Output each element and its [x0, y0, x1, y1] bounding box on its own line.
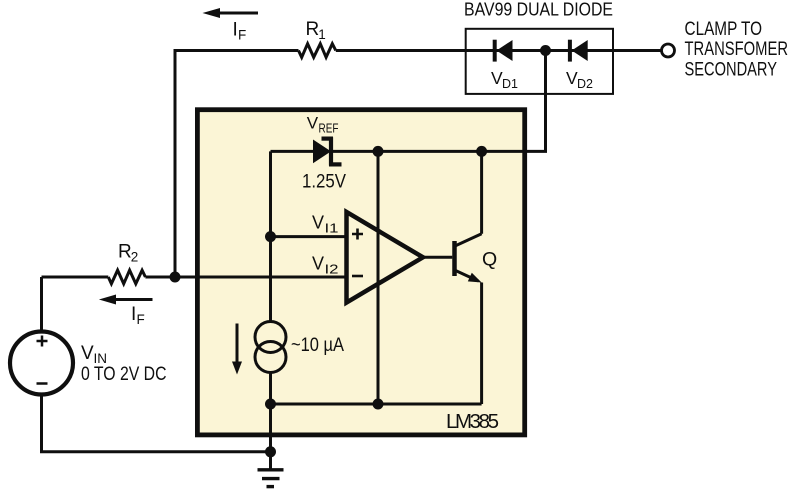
- IC LM385 body: [197, 110, 524, 435]
- svg-text:D1: D1: [502, 77, 518, 91]
- svg-text:V: V: [312, 254, 324, 274]
- svg-text:TRANSFOMER: TRANSFOMER: [685, 39, 789, 60]
- svg-text:I: I: [131, 304, 136, 325]
- label VD1: [491, 68, 518, 91]
- svg-text:Q: Q: [482, 249, 497, 271]
- current source I1 (~10 uA): [255, 322, 286, 373]
- label IF (bottom): [131, 304, 145, 327]
- diode VD1: [495, 40, 513, 62]
- diode VD2: [570, 40, 588, 62]
- svg-text:SECONDARY: SECONDARY: [685, 60, 778, 81]
- svg-text:BAV99 DUAL DIODE: BAV99 DUAL DIODE: [464, 0, 613, 20]
- svg-text:CLAMP TO: CLAMP TO: [685, 19, 763, 40]
- label ~10 uA: [291, 335, 344, 356]
- svg-text:D2: D2: [577, 77, 593, 91]
- label VD2: [566, 68, 593, 91]
- label Q: [482, 249, 497, 271]
- zener diode VREF: [313, 137, 342, 165]
- label VIN 0 TO 2V DC: [81, 343, 167, 385]
- svg-text:~10 µA: ~10 µA: [291, 335, 344, 356]
- junction: node A (R2 / feedback): [170, 272, 181, 283]
- wire: emitter down to bottom rail: [480, 283, 483, 405]
- source VIN: [10, 332, 73, 395]
- label R2: [118, 242, 138, 265]
- label VREF: [307, 114, 339, 136]
- svg-text:R: R: [306, 19, 320, 40]
- wire: inverting input VI2 from R2: [145, 276, 346, 279]
- junction: VREF rail / mid vertical: [373, 146, 384, 157]
- resistor R1: [299, 44, 336, 58]
- svg-text:REF: REF: [319, 122, 339, 136]
- arrow: IF current direction (top): [203, 8, 259, 18]
- label 1.25V: [302, 172, 346, 193]
- wire: op-amp output to transistor base: [423, 256, 452, 259]
- junction: BAV99 common node: [540, 45, 551, 56]
- label R1: [306, 19, 326, 42]
- svg-text:I1: I1: [325, 221, 339, 236]
- wire: VIN negative lead to ground rail: [42, 395, 271, 452]
- svg-text:I2: I2: [325, 262, 339, 277]
- label CLAMP TO TRANSFOMER SECONDARY: [685, 19, 789, 80]
- svg-text:2: 2: [131, 250, 139, 265]
- wire: noninverting input VI1: [271, 235, 347, 238]
- wire: top feedback rail (node A up to R1 to BAV99): [175, 51, 466, 278]
- label BAV99 DUAL DIODE: [464, 0, 613, 20]
- junction: bottom rail mid: [373, 399, 384, 410]
- svg-text:V: V: [307, 114, 319, 133]
- label IF (top): [233, 20, 247, 43]
- wire: VREF rail inside LM385: [271, 150, 482, 153]
- svg-text:0 TO 2V DC: 0 TO 2V DC: [81, 364, 167, 385]
- wire: bottom rail inside LM385: [271, 403, 482, 406]
- junction: VI1 tap: [265, 231, 276, 242]
- svg-text:I: I: [233, 20, 238, 41]
- svg-text:F: F: [238, 28, 246, 43]
- wire: VIN positive lead: [40, 277, 43, 332]
- wire: through BAV99 package: [466, 49, 613, 52]
- svg-text:V: V: [312, 213, 324, 233]
- svg-text:R: R: [118, 242, 132, 263]
- svg-text:1.25V: 1.25V: [302, 172, 346, 193]
- arrow: current source direction: [232, 324, 242, 375]
- wire: left internal vertical (VREF to current source): [269, 151, 272, 404]
- svg-text:F: F: [137, 312, 145, 327]
- svg-text:V: V: [81, 343, 94, 364]
- wire: BAV99 to clamp terminal: [613, 49, 662, 52]
- junction: bottom rail left: [265, 399, 276, 410]
- junction: VREF rail / collector branch: [476, 146, 487, 157]
- label LM385: [446, 410, 499, 433]
- wire: LM385 bottom to ground: [269, 404, 272, 470]
- BAV99 dual diode package box: [466, 29, 613, 94]
- wire: VIN to R2: [42, 276, 109, 279]
- junction: ground node: [265, 446, 276, 457]
- arrow: IF current direction (bottom): [99, 295, 153, 305]
- wire: BAV99 node down to VREF rail: [482, 51, 546, 152]
- wire: collector up to VREF rail: [480, 151, 483, 233]
- resistor R2: [108, 270, 145, 284]
- svg-text:1: 1: [318, 27, 326, 42]
- transistor Q: [455, 234, 482, 283]
- label VI2: [312, 254, 339, 277]
- terminal: clamp output: [662, 44, 675, 57]
- label VI1: [312, 213, 339, 236]
- op-amp U1: [347, 212, 424, 303]
- svg-text:LM385: LM385: [446, 410, 499, 433]
- ground: [258, 470, 284, 487]
- wire: mid vertical through op-amp: [377, 151, 380, 404]
